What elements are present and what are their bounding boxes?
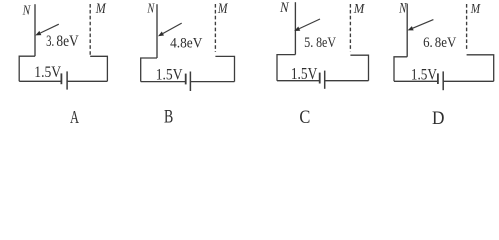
light ray arrow hitting plate N (circuit A) bbox=[35, 24, 59, 35]
wire: bottom-left segment to battery (circuit A) bbox=[19, 80, 61, 82]
battery long plate (circuit B) bbox=[189, 72, 191, 92]
svg-text:3.: 3. bbox=[46, 33, 54, 50]
battery short plate (circuit C) bbox=[319, 73, 321, 84]
battery long plate (circuit D) bbox=[442, 71, 444, 90]
svg-text:C: C bbox=[299, 107, 310, 128]
wire: left step from plate N down (circuit A) bbox=[19, 56, 35, 81]
wire: left step from plate N down (circuit B) bbox=[141, 58, 157, 82]
svg-text:8eV: 8eV bbox=[316, 35, 336, 51]
svg-text:M: M bbox=[470, 1, 481, 16]
photocell electrode plate N (circuit C) bbox=[294, 2, 296, 54]
svg-text:D: D bbox=[432, 108, 444, 129]
wire: bottom-right segment from battery (circuit B) bbox=[190, 81, 234, 83]
wire: bottom-right segment from battery (circuit D) bbox=[443, 80, 494, 82]
wire: bottom-right segment from battery (circuit C) bbox=[325, 80, 369, 82]
wire: bottom-left segment to battery (circuit C) bbox=[277, 80, 320, 82]
svg-text:N: N bbox=[22, 2, 32, 18]
svg-text:N: N bbox=[398, 0, 407, 16]
photocell electrode plate N (circuit B) bbox=[156, 4, 158, 58]
dashed electrode M (circuit C) bbox=[349, 4, 351, 52]
svg-text:1.5V: 1.5V bbox=[411, 66, 438, 83]
svg-text:A: A bbox=[70, 107, 79, 127]
svg-text:8eV: 8eV bbox=[435, 35, 457, 51]
dashed electrode M (circuit D) bbox=[466, 4, 468, 51]
wire: right step up to plate M (circuit A) bbox=[90, 56, 107, 81]
wire: right step up to plate M (circuit B) bbox=[215, 56, 234, 81]
svg-text:8eV: 8eV bbox=[56, 33, 79, 50]
svg-text:M: M bbox=[217, 1, 228, 17]
wire: left step from plate N down (circuit C) bbox=[277, 55, 295, 81]
dashed electrode M (circuit B) bbox=[214, 4, 216, 52]
wire: left step from plate N down (circuit D) bbox=[394, 57, 407, 82]
light ray arrow hitting plate N (circuit D) bbox=[408, 20, 434, 31]
wire: bottom-right segment from battery (circuit A) bbox=[67, 80, 107, 82]
wire: bottom-left segment to battery (circuit D) bbox=[394, 80, 438, 82]
photocell electrode plate N (circuit D) bbox=[406, 4, 408, 57]
svg-text:N: N bbox=[147, 1, 155, 16]
battery long plate (circuit C) bbox=[324, 71, 326, 89]
svg-text:6.: 6. bbox=[423, 35, 433, 51]
battery long plate (circuit A) bbox=[66, 71, 68, 89]
wire: right step up to plate M (circuit D) bbox=[467, 55, 494, 82]
battery short plate (circuit B) bbox=[185, 74, 187, 85]
svg-text:N: N bbox=[279, 0, 290, 16]
svg-text:M: M bbox=[95, 1, 106, 17]
wire: right step up to plate M (circuit C) bbox=[350, 55, 368, 80]
svg-text:1.5V: 1.5V bbox=[291, 64, 318, 83]
svg-text:B: B bbox=[164, 106, 173, 127]
svg-text:1.5V: 1.5V bbox=[34, 64, 61, 81]
work function value label (circuit A) bbox=[46, 33, 79, 50]
work function value label (circuit D) bbox=[423, 35, 456, 51]
work function value label (circuit C) bbox=[304, 35, 336, 51]
svg-text:M: M bbox=[353, 1, 365, 17]
svg-text:4.8eV: 4.8eV bbox=[170, 35, 202, 51]
light ray arrow hitting plate N (circuit C) bbox=[294, 19, 320, 31]
dashed electrode M (circuit A) bbox=[89, 4, 91, 56]
battery short plate (circuit D) bbox=[437, 73, 439, 84]
wire: bottom-left segment to battery (circuit B) bbox=[141, 81, 186, 83]
photocell electrode plate N (circuit A) bbox=[34, 4, 36, 56]
light ray arrow hitting plate N (circuit B) bbox=[158, 23, 182, 36]
battery short plate (circuit A) bbox=[60, 73, 62, 84]
svg-text:5.: 5. bbox=[304, 35, 313, 51]
svg-text:1.5V: 1.5V bbox=[156, 67, 183, 84]
